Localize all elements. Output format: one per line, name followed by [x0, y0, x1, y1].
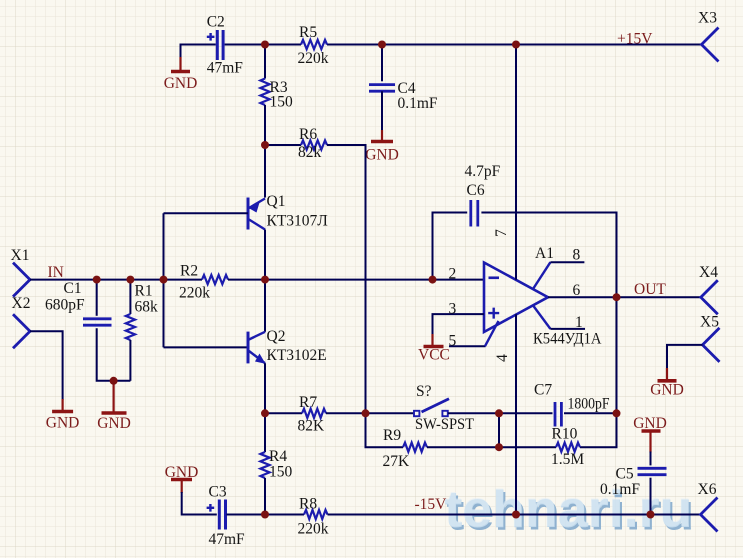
wire R8 to X6 (-15V rail) [328, 514, 701, 516]
ground (X5) [650, 368, 684, 399]
svg-text:X4: X4 [699, 264, 718, 281]
svg-text:GND: GND [97, 415, 131, 432]
svg-text:GND: GND [650, 382, 684, 399]
junction R7 row [261, 409, 269, 417]
net label OUT [634, 281, 666, 298]
pin 8 stub [533, 262, 584, 289]
svg-text:82K: 82K [298, 418, 326, 435]
svg-text:220k: 220k [179, 285, 210, 302]
svg-text:68k: 68k [135, 299, 159, 316]
svg-text:R10: R10 [552, 426, 578, 443]
svg-text:GND: GND [46, 415, 80, 432]
switch S? SW-SPST [414, 383, 474, 433]
ground (C1/R1) [97, 381, 131, 432]
port X1 [11, 247, 31, 297]
junction rail/pin7 [512, 41, 520, 49]
svg-text:X5: X5 [700, 314, 719, 331]
svg-text:C3: C3 [209, 484, 227, 501]
svg-text:R1: R1 [135, 283, 153, 300]
svg-text:GND: GND [365, 147, 399, 164]
wire X1 to R2 [30, 279, 202, 281]
svg-text:C6: C6 [467, 182, 485, 199]
resistor R4 150 [260, 448, 292, 481]
port X6 [698, 481, 718, 532]
resistor R5 220k [298, 24, 329, 67]
wire switch junction down to R9 [366, 413, 404, 447]
svg-text:C1: C1 [64, 280, 82, 297]
wire R4 to -15V rail [264, 478, 266, 515]
svg-text:R6: R6 [299, 126, 317, 143]
watermark tehnari.ru [444, 480, 695, 541]
wire IN down to R1 [129, 280, 131, 314]
wire Q1 bottom to IN row [264, 230, 266, 280]
svg-text:5: 5 [449, 333, 457, 350]
svg-text:К544УД1А: К544УД1А [533, 331, 602, 348]
svg-text:Q1: Q1 [267, 193, 286, 210]
capacitor C2 (polarized 47mF) [207, 14, 244, 77]
svg-text:C2: C2 [207, 14, 225, 31]
wire R9 to junction [427, 446, 499, 448]
pin 6 [573, 282, 581, 299]
port X4 [699, 264, 718, 314]
wire junction link [498, 413, 500, 447]
net label IN [48, 264, 64, 281]
svg-text:150: 150 [270, 94, 294, 111]
wire C1 bottom [97, 328, 131, 381]
svg-text:2: 2 [449, 266, 457, 283]
junction R9/R10 [495, 443, 503, 451]
wire X5 to ground [667, 345, 703, 369]
wire op-amp pin 5 stub [449, 345, 486, 347]
pin 4 [494, 354, 511, 362]
capacitor C7 1800pF [534, 382, 610, 427]
wire R6 elbow down to switch row [327, 145, 366, 413]
svg-text:A1: A1 [535, 245, 554, 262]
resistor R10 1.5M [551, 426, 584, 469]
svg-text:R4: R4 [269, 448, 287, 465]
svg-text:OUT: OUT [634, 281, 666, 298]
wire IN row down to Q2 top [264, 280, 266, 332]
resistor R7 82K [298, 394, 326, 435]
junction IN/R1 [126, 276, 134, 284]
ground (C4) [365, 130, 399, 164]
svg-text:3: 3 [449, 301, 457, 318]
op-amp A1 K544UD1A [484, 245, 602, 348]
capacitor C4 0.1mF [369, 80, 438, 112]
resistor R1 68k [126, 283, 158, 341]
pin 8 [573, 247, 581, 264]
wire X2 to ground [30, 331, 63, 400]
pin 1 stub [533, 305, 585, 329]
svg-text:GND: GND [164, 75, 198, 92]
wire rail down to C4 [381, 45, 383, 82]
capacitor C5 0.1mF [600, 466, 667, 499]
svg-text:680pF: 680pF [45, 297, 85, 314]
wire C2 right plate to R5 [225, 44, 301, 46]
port X3 [698, 10, 719, 62]
svg-text:0.1mF: 0.1mF [398, 95, 438, 112]
svg-text:220k: 220k [298, 50, 329, 67]
svg-text:R8: R8 [299, 496, 317, 513]
junction IN/Q column [261, 276, 269, 284]
wire feedback column down [580, 297, 617, 447]
junction rail/C5 [647, 511, 655, 519]
wire op-amp pin 3 [433, 314, 485, 336]
junction R3/R6 [261, 141, 269, 149]
svg-text:1.5M: 1.5M [551, 451, 584, 468]
svg-text:1800pF: 1800pF [568, 396, 610, 413]
wire R7 to switch [326, 412, 414, 414]
net label -15V [415, 496, 448, 513]
svg-text:C5: C5 [616, 466, 634, 483]
svg-text:R9: R9 [383, 427, 401, 444]
wire C4 to ground [381, 91, 383, 130]
junction C7/feedback [613, 409, 621, 417]
wire junction to C7 left plate [499, 412, 553, 414]
resistor R8 220k [298, 496, 329, 538]
transistor Q2 KT3102E (NPN) [248, 328, 327, 364]
ground (C5) [633, 415, 667, 453]
pin 2 [449, 266, 457, 283]
svg-text:0.1mF: 0.1mF [600, 481, 640, 498]
svg-text:C7: C7 [534, 382, 552, 399]
wire op-amp pin 4 down to -15V rail [515, 314, 517, 514]
svg-text:7: 7 [493, 229, 510, 237]
junction switch/C7 [495, 409, 503, 417]
wire junction to R10 [499, 446, 556, 448]
junction rail/pin4 [512, 511, 520, 519]
wire Q2 emitter junction to R7 [265, 412, 302, 414]
svg-text:27K: 27K [383, 453, 411, 470]
ground (C2) [164, 57, 198, 92]
pin 5 diagonal [485, 321, 499, 346]
svg-text:6: 6 [573, 282, 581, 299]
wire op-amp output to X4 [548, 296, 701, 298]
wire IN down to C1 [96, 280, 98, 316]
pin 3 [449, 301, 457, 318]
svg-text:X6: X6 [698, 481, 717, 498]
wire switch to C7 row junction [448, 412, 499, 414]
wire R5 to X3 (+15V rail) [327, 44, 701, 46]
svg-text:220k: 220k [298, 521, 329, 538]
svg-text:КТ3102E: КТ3102E [267, 347, 327, 364]
net label +15V [617, 31, 653, 48]
svg-text:150: 150 [269, 464, 293, 481]
capacitor C6 4.7pF [465, 163, 501, 227]
junction IN/base column [160, 276, 168, 284]
svg-text:SW-SPST: SW-SPST [415, 416, 474, 433]
svg-text:R2: R2 [180, 263, 198, 280]
capacitor C3 (polarized 47mF) [207, 484, 245, 549]
transistor Q1 KT3107L (PNP) [248, 193, 328, 230]
svg-text:+15V: +15V [617, 31, 653, 48]
wire R6 left [265, 144, 301, 146]
wire R2 to op-amp pin 2 [228, 279, 484, 281]
svg-text:-15V: -15V [415, 496, 448, 513]
pin 7 [493, 229, 510, 237]
svg-text:IN: IN [48, 264, 64, 281]
resistor R9 27K [383, 427, 427, 470]
svg-text:Q2: Q2 [267, 328, 286, 345]
wire pin2 junction up to C6 [433, 213, 468, 280]
wire R6 junction down to Q1 collector [264, 145, 266, 198]
svg-text:47mF: 47mF [209, 531, 246, 548]
wire Q2 bottom to R7 row [264, 363, 266, 413]
svg-text:X1: X1 [11, 247, 30, 264]
wire GND to C2 left plate [181, 45, 216, 59]
svg-text:X2: X2 [12, 295, 31, 312]
junction C1/R1 ground [110, 377, 118, 385]
junction IN/C1 [93, 276, 101, 284]
junction C2/R5/R3 [261, 41, 269, 49]
pin 5 [449, 333, 457, 350]
ground (C3) [165, 464, 199, 493]
wire C3 right plate to R8 [226, 514, 304, 516]
wire GND down to C3 left plate [182, 492, 217, 515]
svg-text:4.7pF: 4.7pF [465, 163, 501, 180]
ground (X2) [46, 399, 80, 432]
wire GND to C5 top plate [650, 452, 652, 466]
svg-text:S?: S? [416, 383, 432, 400]
wire C6 to feedback column [481, 213, 616, 298]
svg-text:tehnari.ru: tehnari.ru [444, 480, 692, 538]
port X2 [12, 295, 31, 348]
svg-text:82k: 82k [298, 144, 322, 161]
wire C7 right plate to feedback column [564, 412, 617, 414]
junction rail/C4 [378, 41, 386, 49]
wire Q1 base [164, 212, 249, 214]
wire +15V rail down to op-amp pin 7 [515, 45, 517, 280]
wire R5/C2 junction down to R3 [264, 45, 266, 79]
power VCC [418, 334, 450, 364]
svg-text:R7: R7 [299, 394, 317, 411]
svg-text:4: 4 [494, 354, 511, 362]
svg-text:X3: X3 [698, 10, 717, 27]
svg-text:КТ3107Л: КТ3107Л [267, 213, 329, 230]
wire Q2 base [164, 346, 249, 348]
svg-text:47mF: 47mF [207, 60, 244, 77]
port X5 [700, 314, 720, 362]
svg-text:8: 8 [573, 247, 581, 264]
svg-text:1: 1 [575, 314, 583, 331]
junction R7/switch/R9 [362, 409, 370, 417]
resistor R6 82k [298, 126, 327, 161]
wire R1 bottom [129, 340, 131, 381]
capacitor C1 680pF [45, 280, 112, 325]
junction OUT/feedback [613, 293, 621, 301]
svg-text:VCC: VCC [418, 347, 450, 364]
junction pin2/C6 [429, 276, 437, 284]
resistor R3 150 [260, 79, 293, 111]
svg-text:R5: R5 [299, 24, 317, 41]
pin 1 [575, 314, 583, 331]
resistor R2 220k [179, 263, 228, 302]
wire R3 to R6 junction [264, 105, 266, 145]
wire base column [163, 213, 165, 347]
wire R7 junction down to R4 [264, 413, 266, 452]
junction rail/R4 [261, 511, 269, 519]
wire C5 bottom to -15V rail [650, 478, 652, 515]
